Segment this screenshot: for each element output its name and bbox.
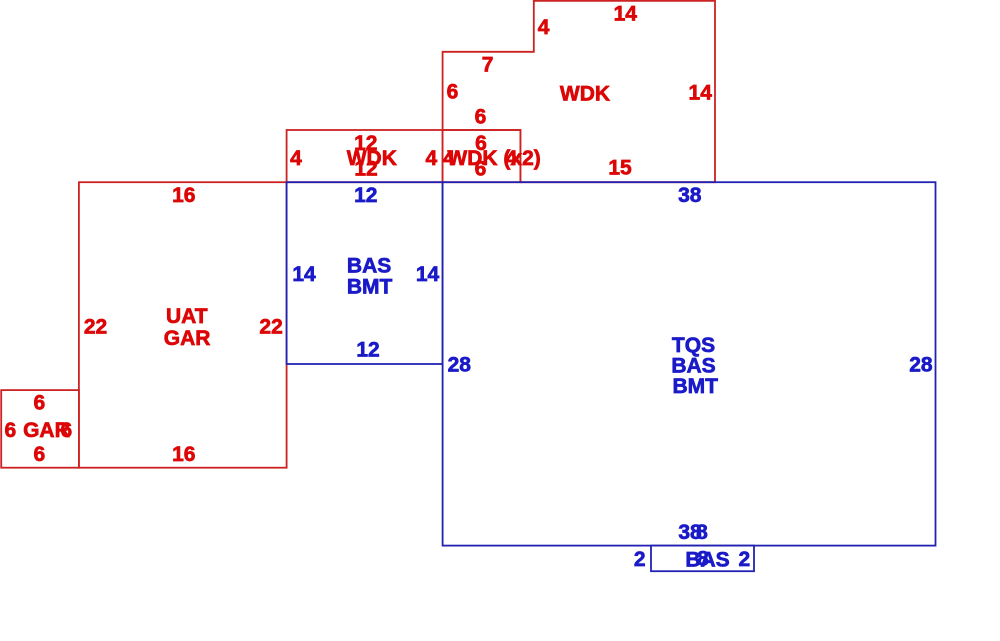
svg-text:14: 14: [292, 263, 316, 286]
svg-text:12: 12: [354, 184, 377, 207]
wood deck WDK (12x4) rectangle: [287, 130, 443, 182]
svg-text:22: 22: [84, 315, 107, 338]
svg-text:8: 8: [696, 521, 708, 544]
svg-text:6: 6: [475, 106, 487, 129]
svg-text:BAS: BAS: [347, 254, 391, 277]
svg-text:UAT: UAT: [166, 305, 208, 328]
svg-text:4: 4: [426, 147, 438, 170]
svg-text:14: 14: [689, 81, 713, 104]
svg-text:28: 28: [448, 353, 472, 376]
svg-text:BMT: BMT: [347, 276, 393, 299]
svg-text:12: 12: [356, 338, 379, 361]
garage GAR (6x6) rectangle: [1, 390, 79, 468]
svg-text:7: 7: [482, 54, 494, 77]
svg-text:38: 38: [678, 184, 702, 207]
svg-text:4: 4: [506, 147, 518, 170]
svg-text:28: 28: [909, 353, 933, 376]
svg-text:6: 6: [34, 392, 46, 415]
garage UAT/GAR (16x22) rectangle: [79, 182, 287, 468]
svg-text:16: 16: [172, 184, 195, 207]
svg-text:4: 4: [538, 16, 550, 39]
svg-text:2: 2: [738, 548, 750, 571]
svg-text:16: 16: [172, 443, 195, 466]
main area TQS/BAS/BMT (38x28) rectangle: [443, 182, 936, 545]
svg-text:WDK: WDK: [560, 83, 610, 106]
wood deck WDK x2 (6x4) rectangle: [443, 130, 521, 182]
svg-text:8: 8: [697, 548, 709, 571]
svg-text:6: 6: [5, 419, 17, 442]
svg-text:TQS: TQS: [672, 334, 715, 357]
svg-text:6: 6: [475, 158, 487, 181]
wood deck WDK (14x14 with notch) outline: [443, 1, 715, 182]
svg-text:22: 22: [259, 315, 282, 338]
svg-text:6: 6: [60, 419, 72, 442]
svg-text:2: 2: [634, 548, 646, 571]
svg-text:GAR: GAR: [164, 327, 211, 350]
svg-text:WDK (x2): WDK (x2): [447, 147, 540, 170]
svg-text:4: 4: [290, 147, 302, 170]
svg-text:6: 6: [447, 81, 459, 104]
svg-text:6: 6: [34, 443, 46, 466]
basement BAS (8x2) rectangle: [651, 546, 754, 572]
svg-text:12: 12: [354, 158, 377, 181]
svg-text:15: 15: [608, 157, 632, 180]
svg-text:14: 14: [416, 263, 440, 286]
basement BAS/BMT (12x14) rectangle: [287, 182, 443, 364]
svg-text:14: 14: [614, 2, 638, 25]
svg-text:BMT: BMT: [672, 375, 718, 398]
